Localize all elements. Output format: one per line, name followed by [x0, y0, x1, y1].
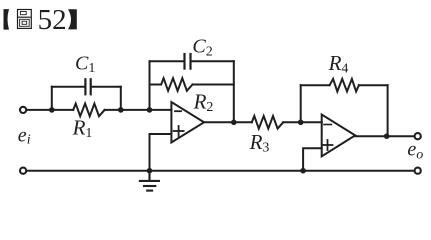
wire: op-amp U1 non-inverting input to ground rail	[150, 134, 172, 171]
wire: node D to resistor R3	[234, 121, 252, 123]
node H (ground junction dot)	[147, 168, 153, 174]
op-amp U2	[322, 115, 356, 157]
wire: C1 branch left horizontal	[52, 86, 85, 88]
figure title bracket 【	[4, 9, 10, 30]
wire: C2 branch left horizontal	[150, 60, 184, 62]
svg-text:R3: R3	[249, 130, 270, 155]
ground symbol	[140, 171, 159, 191]
wire: op-amp U1 output to node D	[204, 121, 234, 123]
wire: resistor R1 to node B	[105, 109, 121, 111]
node C (junction dot)	[147, 107, 153, 113]
svg-text:52: 52	[38, 4, 67, 36]
svg-text:R1: R1	[72, 116, 93, 141]
svg-text:ei: ei	[18, 124, 31, 147]
svg-text:C1: C1	[75, 52, 95, 76]
wire: R4 branch left horizontal	[301, 84, 330, 86]
node F (junction dot on ground rail)	[300, 168, 306, 174]
wire: feedback right vertical down to node D	[233, 61, 235, 122]
svg-text:eo: eo	[407, 139, 423, 163]
input terminal ei bottom	[20, 168, 26, 174]
svg-text:R4: R4	[328, 51, 349, 76]
wire: node B to op-amp U1 inverting input	[121, 109, 172, 111]
op-amp U1	[171, 102, 204, 143]
wire: C1 branch right horizontal	[92, 86, 121, 88]
wire: C2 branch right horizontal	[192, 60, 234, 62]
resistor R3	[252, 116, 283, 129]
node B (junction dot)	[118, 107, 124, 113]
capacitor C2	[185, 54, 191, 69]
wire: bottom ground rail	[27, 170, 413, 172]
figure title character 圖	[18, 10, 32, 29]
svg-text:C2: C2	[192, 36, 212, 60]
output terminal eo top	[415, 133, 421, 139]
wire: R4 right vertical down to node G	[387, 85, 389, 136]
node G (junction dot)	[384, 133, 390, 139]
wire: op-amp U2 output to output terminal	[355, 135, 413, 137]
wire: C1 branch down to node B	[120, 87, 122, 110]
resistor R4	[330, 79, 359, 92]
figure title bracket 】	[68, 9, 77, 29]
output terminal eo bottom	[415, 168, 421, 174]
resistor R2	[161, 78, 192, 91]
wire: R2 branch right horizontal	[193, 84, 234, 86]
wire: R4 branch right horizontal	[359, 84, 388, 86]
wire: input terminal to node A	[27, 109, 51, 111]
wire: node C up to feedback branches	[149, 61, 151, 110]
node D (junction dot)	[231, 120, 237, 126]
svg-text:R2: R2	[193, 89, 214, 114]
wire: R2 branch left horizontal	[150, 84, 162, 86]
wire: node E up to R4 branch	[300, 85, 302, 122]
node E (junction dot)	[298, 120, 304, 126]
capacitor C1	[85, 79, 90, 94]
node A (junction dot)	[49, 107, 55, 113]
wire: node E to op-amp U2 inverting input	[301, 121, 322, 123]
wire: node A to resistor R1	[52, 109, 73, 111]
wire: resistor R3 to node E	[283, 121, 301, 123]
resistor R1	[73, 104, 104, 117]
wire: op-amp U2 non-inverting input to ground rail	[303, 148, 322, 170]
wire: node A up to C1 branch	[51, 87, 53, 110]
input terminal ei top	[20, 107, 26, 113]
